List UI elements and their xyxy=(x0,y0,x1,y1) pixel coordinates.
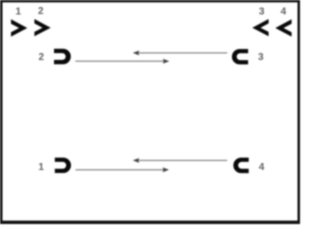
svg-text:4: 4 xyxy=(259,162,265,173)
svg-text:3: 3 xyxy=(259,6,265,17)
svg-text:2: 2 xyxy=(39,52,45,63)
wire: top lower line xyxy=(75,60,164,62)
magnet shape 1 (opening left) xyxy=(55,158,71,173)
chevron 3 xyxy=(252,19,268,36)
magnet shape 2 (opening left) xyxy=(54,49,71,64)
arrowhead right (top lower) xyxy=(163,59,170,64)
wire: bottom upper line xyxy=(136,159,227,161)
magnet shape 4 (opening right) xyxy=(233,158,248,174)
chevron 1 xyxy=(11,19,27,36)
arrowhead right (bottom lower) xyxy=(163,167,170,172)
wire: bottom lower line xyxy=(76,169,164,171)
arrowhead left (top upper) xyxy=(133,50,140,55)
svg-text:3: 3 xyxy=(258,52,264,63)
magnet shape 3 (opening right) xyxy=(232,49,248,64)
wire: top upper line xyxy=(136,52,227,54)
chevron 2 xyxy=(34,19,50,36)
svg-text:1: 1 xyxy=(16,6,22,17)
svg-text:4: 4 xyxy=(281,6,287,17)
svg-text:2: 2 xyxy=(38,6,44,17)
arrowhead left (bottom upper) xyxy=(133,158,140,163)
svg-text:1: 1 xyxy=(38,162,44,173)
chevron 4 xyxy=(275,19,291,36)
